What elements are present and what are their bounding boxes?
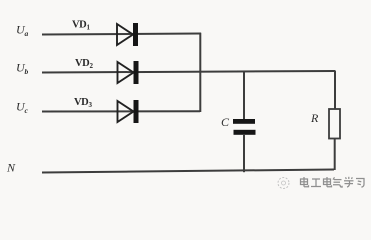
- wire N: [42, 170, 334, 173]
- diode VD2: [118, 61, 139, 84]
- svg-text:VD: VD: [74, 97, 89, 108]
- char 电: [301, 177, 309, 187]
- node Uc label: [16, 100, 29, 116]
- node Ua label: [16, 23, 29, 39]
- wire bus vertical: [199, 33, 201, 112]
- char 工: [311, 179, 321, 187]
- svg-text:R: R: [310, 111, 319, 125]
- diode VD1: [117, 23, 138, 46]
- svg-text:1: 1: [87, 24, 91, 32]
- resistor R body: [329, 109, 340, 139]
- wire resistor branch bottom: [334, 139, 336, 171]
- svg-text:a: a: [25, 29, 29, 38]
- node Ub label: [16, 61, 29, 77]
- diode VD3: [118, 100, 139, 123]
- wire capacitor branch bottom: [243, 134, 245, 172]
- wire row Ua: [42, 34, 201, 35]
- svg-text:VD: VD: [72, 20, 87, 31]
- label VD2: [75, 58, 94, 70]
- wire row Ub: [42, 71, 335, 73]
- wire capacitor branch top: [243, 71, 245, 120]
- svg-text:C: C: [221, 115, 230, 129]
- svg-text:VD: VD: [75, 58, 90, 69]
- label VD3: [74, 97, 93, 109]
- char 气: [333, 177, 342, 187]
- capacitor C plates: [233, 119, 256, 135]
- char 学: [344, 177, 354, 187]
- watermark text 电工电气学习 (drawn strokes): [301, 177, 365, 187]
- svg-text:3: 3: [89, 101, 93, 109]
- wire row Uc: [42, 110, 200, 112]
- label VD1: [72, 20, 91, 32]
- char 电: [324, 177, 332, 187]
- char 习: [356, 179, 364, 188]
- svg-text:b: b: [25, 67, 29, 76]
- svg-text:2: 2: [90, 62, 94, 70]
- svg-text:N: N: [6, 161, 16, 175]
- wire resistor branch top: [334, 71, 336, 110]
- watermark logo circle: [278, 178, 289, 189]
